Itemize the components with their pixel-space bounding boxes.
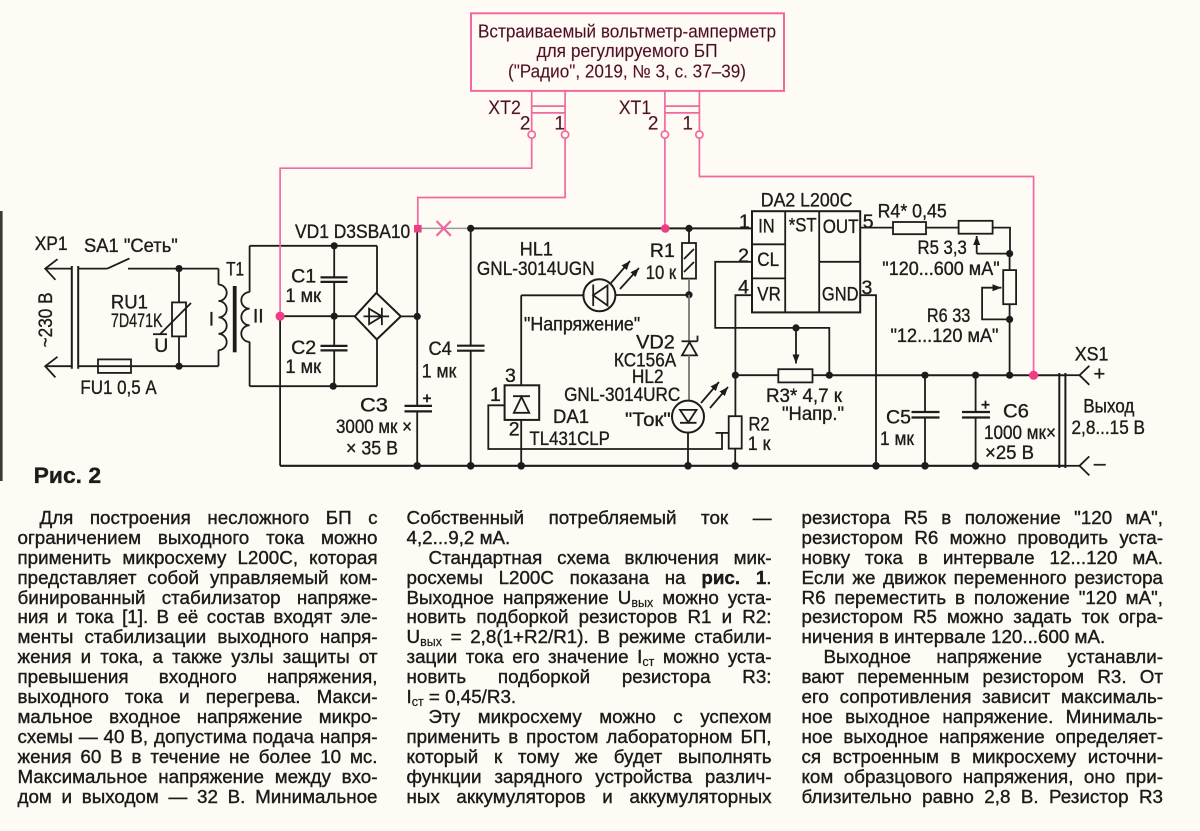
svg-text:3000 мк ×: 3000 мк × [336, 416, 412, 438]
svg-text:OUT: OUT [823, 216, 859, 238]
svg-text:XT1: XT1 [619, 98, 652, 119]
svg-text:GNL-3014URC: GNL-3014URC [564, 384, 680, 406]
node pink out [1029, 371, 1038, 380]
node R3 right [826, 372, 833, 379]
node C4 gnd [467, 462, 475, 470]
wire bottom rail [280, 465, 1066, 467]
wire DA2 pin3 GND [860, 295, 876, 466]
node R1 bus [685, 225, 692, 232]
svg-text:2: 2 [648, 113, 659, 134]
svg-text:XT2: XT2 [488, 98, 521, 119]
wire XT1.2 [664, 138, 666, 225]
svg-text:XP1: XP1 [35, 233, 68, 255]
node pink tap [276, 312, 285, 321]
IC DA2 [752, 211, 860, 312]
svg-text:2: 2 [520, 113, 531, 134]
svg-text:XS1: XS1 [1075, 344, 1109, 366]
svg-text:VR: VR [757, 284, 781, 306]
svg-text:*ST: *ST [789, 214, 817, 236]
svg-text:R1: R1 [650, 240, 675, 262]
node pink bus [661, 224, 670, 233]
svg-text:5: 5 [863, 211, 874, 233]
svg-text:1 мк: 1 мк [285, 285, 321, 307]
zener VD2 [688, 295, 690, 342]
node C2 bottom [330, 383, 337, 390]
wire XT1.1 [699, 138, 1033, 371]
svg-text:("Радио", 2019, № 3, с. 37–39): ("Радио", 2019, № 3, с. 37–39) [508, 62, 746, 82]
node RU1 bottom [175, 363, 182, 370]
capacitor C2 [333, 316, 335, 345]
node C1 top [331, 242, 338, 249]
scan edge strip [0, 211, 3, 481]
svg-text:C5: C5 [886, 407, 911, 429]
node CL junction [792, 324, 799, 331]
wire [128, 268, 219, 270]
svg-text:–: – [1094, 452, 1106, 475]
svg-text:1 мк: 1 мк [880, 428, 914, 450]
svg-text:GNL-3014UGN: GNL-3014UGN [477, 258, 595, 280]
wire grey bus segment [422, 227, 469, 229]
capacitor C4 [470, 228, 472, 345]
svg-text:TL431CLP: TL431CLP [530, 428, 610, 450]
svg-text:VD1 D3SBA10: VD1 D3SBA10 [295, 221, 410, 243]
node R6 rail [1006, 372, 1013, 379]
wire bridge output [401, 315, 417, 317]
capacitor C1 [333, 246, 335, 277]
svg-text:2: 2 [509, 419, 520, 441]
wire [521, 294, 583, 296]
svg-text:II: II [253, 305, 264, 327]
varistor RU1 [178, 269, 180, 303]
svg-text:SA1 "Сеть": SA1 "Сеть" [84, 235, 178, 257]
wire lower AC rail [250, 385, 377, 387]
transformer T1 core [233, 286, 237, 352]
wire DA1 anode [520, 420, 522, 466]
LED HL1 [583, 279, 615, 311]
transformer T1 primary [218, 269, 220, 285]
resistor R2 [734, 375, 736, 416]
wire [78, 365, 218, 367]
wire [687, 433, 689, 466]
connector XP1 [45, 259, 57, 280]
node VR junction [732, 372, 739, 379]
wire DA2 pin5 OUT [860, 227, 893, 229]
node C5 gnd [921, 462, 929, 470]
resistor R4 [893, 222, 926, 234]
svg-text:DA1: DA1 [553, 406, 589, 428]
svg-text:1: 1 [490, 384, 501, 406]
svg-text:Рис. 2: Рис. 2 [34, 463, 101, 488]
svg-text:10 к: 10 к [646, 262, 677, 284]
bridge rectifier VD1 [355, 293, 401, 340]
potentiometer R5 [959, 221, 993, 234]
connector XS1 [1058, 373, 1060, 468]
node DA2 gnd [872, 462, 880, 470]
wire left drop to bottom rail [279, 316, 281, 466]
switch SA1 [78, 268, 107, 270]
svg-text:C1: C1 [291, 265, 316, 287]
node C6 gnd [972, 462, 980, 470]
svg-text:C6: C6 [1003, 401, 1029, 423]
potentiometer R6 [1009, 254, 1011, 271]
svg-text:IN: IN [758, 215, 775, 237]
wire main plus bus [471, 227, 752, 229]
svg-text:U: U [154, 335, 168, 357]
svg-text:FU1 0,5 А: FU1 0,5 А [80, 377, 156, 399]
wire R3 wiper [795, 331, 797, 364]
svg-text:Встраиваемый вольтметр-амперме: Встраиваемый вольтметр-амперметр [478, 22, 776, 42]
connector XT2 [531, 91, 533, 131]
svg-text:C3: C3 [360, 394, 388, 416]
op-amp DA1 [505, 385, 540, 420]
svg-text:"Ток": "Ток" [625, 409, 671, 431]
wire [615, 294, 689, 296]
svg-text:1: 1 [682, 113, 693, 134]
svg-text:R6 33: R6 33 [927, 305, 970, 327]
node HL2 gnd [684, 462, 692, 470]
break mark X [437, 221, 451, 236]
connector XT1 [664, 91, 666, 131]
svg-text:"120...600 мА": "120...600 мА" [882, 258, 999, 280]
node R5 wiper [1006, 250, 1013, 257]
wire mid rail [280, 315, 355, 317]
wire DA1 ref [488, 405, 722, 449]
wire DA2 pin4 VR [735, 295, 752, 375]
capacitor C3 [405, 405, 433, 407]
capacitor C6 [972, 372, 979, 379]
node R1 bottom [685, 291, 692, 298]
svg-text:1: 1 [554, 113, 565, 134]
svg-text:"12...120 мА": "12...120 мА" [891, 325, 999, 347]
svg-text:1 к: 1 к [748, 433, 771, 455]
svg-text:2: 2 [738, 245, 749, 267]
svg-text:1 мк: 1 мк [285, 356, 321, 378]
capacitor C5 [921, 372, 928, 379]
svg-text:3: 3 [862, 277, 873, 299]
resistor R1 [688, 228, 690, 243]
node C2 top [331, 313, 338, 320]
svg-text:× 35 В: × 35 В [346, 437, 398, 459]
wire top rail [250, 245, 377, 247]
fuse FU1 [98, 359, 131, 373]
svg-text:T1: T1 [226, 259, 244, 281]
svg-text:×25 В: ×25 В [985, 442, 1034, 464]
wire XT2.1 [418, 138, 565, 225]
wire plus rail [829, 374, 1066, 376]
svg-text:+: + [1094, 364, 1106, 386]
svg-text:C4: C4 [429, 338, 452, 360]
svg-text:DA2 L200C: DA2 L200C [761, 190, 853, 212]
svg-text:"Напр.": "Напр." [782, 403, 844, 425]
svg-text:I: I [209, 308, 214, 330]
node DA1 gnd [517, 462, 525, 470]
transformer T1 secondary [249, 246, 251, 292]
svg-text:4: 4 [738, 276, 749, 298]
potentiometer R3 [735, 374, 778, 376]
svg-text:1 мк: 1 мк [422, 360, 457, 382]
svg-text:R5 3,3: R5 3,3 [918, 237, 967, 259]
wire DA2 pin2 CL [715, 262, 796, 328]
wire XT2.2 [280, 138, 532, 311]
node RU1 top [175, 265, 182, 272]
svg-text:2,8...15 В: 2,8...15 В [1072, 417, 1146, 439]
svg-text:"Напряжение": "Напряжение" [524, 313, 640, 335]
node R2 gnd [731, 462, 739, 470]
svg-text:GND: GND [822, 284, 859, 306]
svg-text:1000 мк×: 1000 мк× [984, 422, 1056, 444]
svg-text:Выход: Выход [1083, 396, 1135, 418]
voltmeter box [471, 13, 784, 91]
LED HL2 [672, 401, 704, 433]
svg-text:~230 В: ~230 В [35, 292, 57, 347]
svg-text:для регулируемого БП: для регулируемого БП [537, 41, 718, 61]
node pink square [414, 225, 422, 233]
node R6 bottom [1006, 316, 1013, 323]
svg-text:CL: CL [757, 249, 779, 271]
svg-text:1: 1 [739, 211, 750, 233]
node C4 bus [467, 225, 474, 232]
svg-text:7D471K: 7D471K [111, 310, 163, 332]
node C3 gnd [413, 462, 421, 470]
svg-text:R4* 0,45: R4* 0,45 [878, 200, 947, 222]
svg-text:3: 3 [505, 365, 516, 387]
node bridge plus [414, 313, 421, 320]
